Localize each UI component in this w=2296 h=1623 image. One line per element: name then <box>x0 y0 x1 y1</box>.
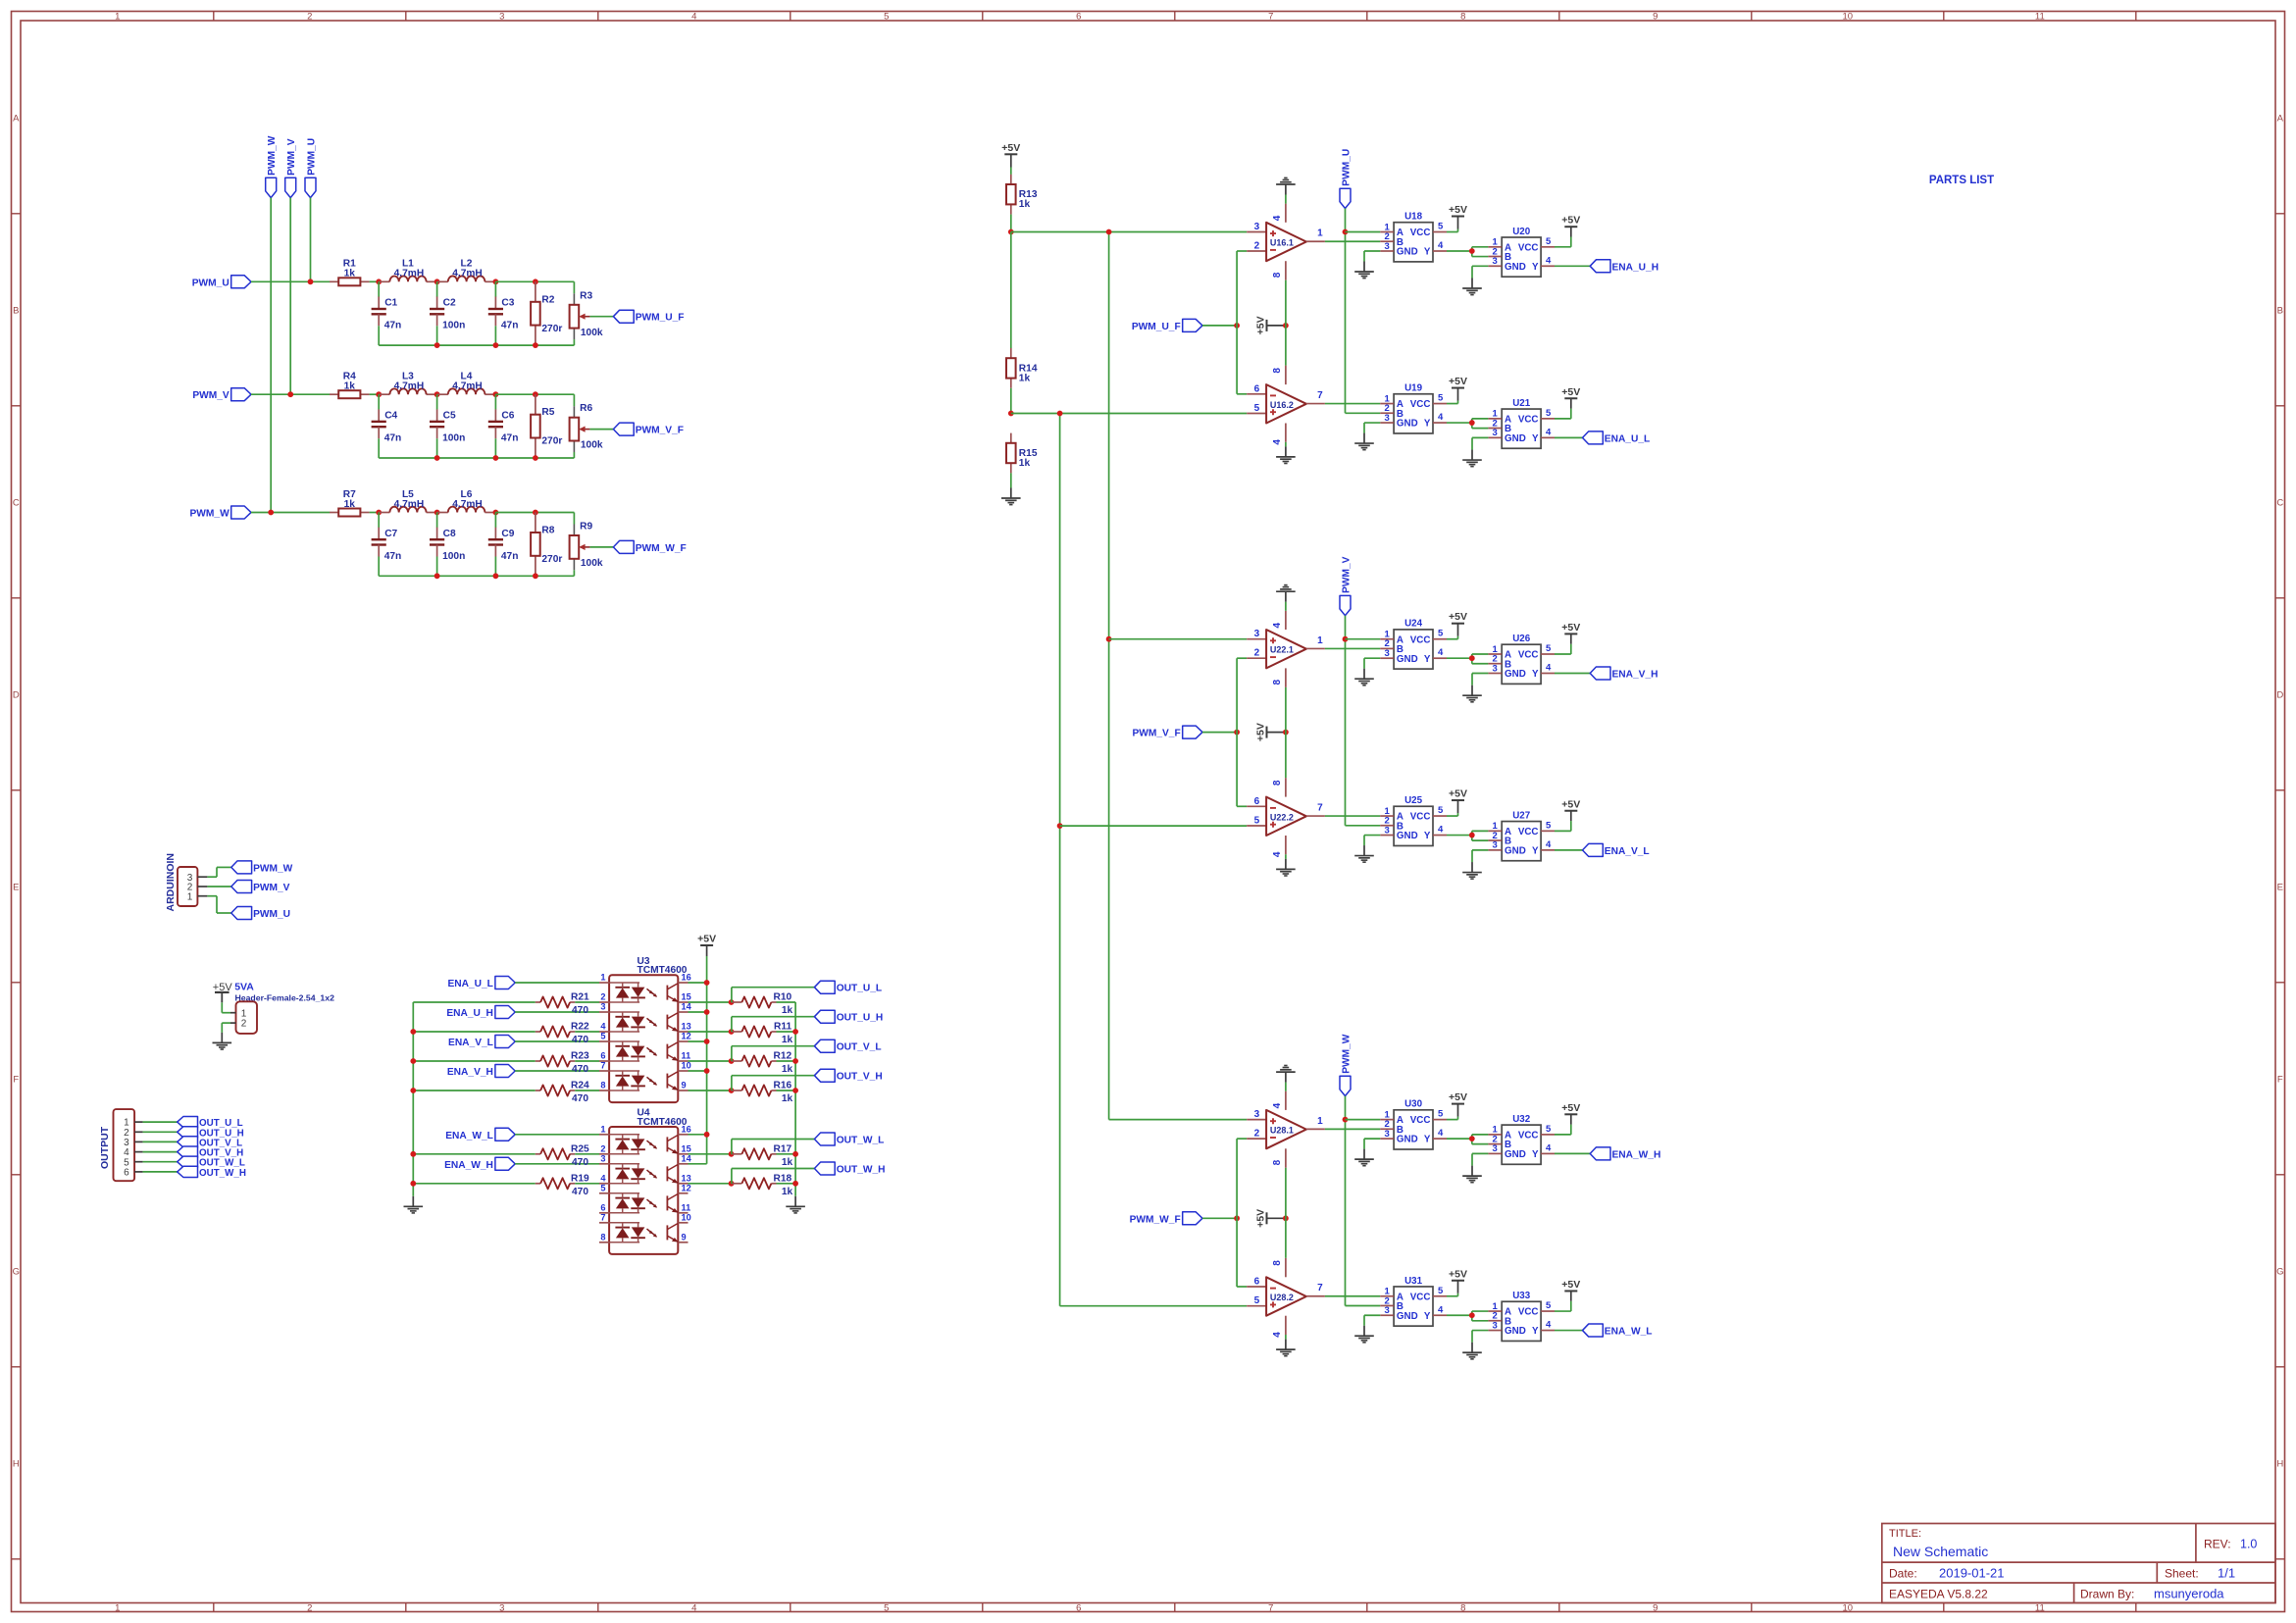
wire U28.1 out to U30 <box>1325 1128 1380 1130</box>
svg-text:8: 8 <box>1272 780 1283 786</box>
svg-text:5: 5 <box>1438 222 1444 232</box>
ground header P1 <box>213 1033 232 1049</box>
port OUT_W_L (connector) <box>178 1156 245 1169</box>
svg-text:R11: R11 <box>774 1022 791 1033</box>
ground U16.2 pin4 <box>1276 446 1296 463</box>
svg-text:ENA_W_L: ENA_W_L <box>1605 1327 1653 1338</box>
svg-text:H: H <box>2276 1458 2283 1469</box>
wire ENA_W_H to opto <box>515 1163 599 1165</box>
svg-text:2: 2 <box>1254 1129 1260 1140</box>
svg-text:9: 9 <box>682 1232 687 1242</box>
wire jog to U21 pin2 <box>1472 423 1489 429</box>
svg-text:6: 6 <box>1076 1603 1081 1614</box>
svg-text:R24: R24 <box>571 1081 589 1091</box>
gate U24 <box>1380 619 1447 669</box>
svg-text:C9: C9 <box>501 529 514 539</box>
svg-text:3: 3 <box>1254 222 1260 232</box>
wire U30 GND <box>1364 1139 1380 1149</box>
wire U18 GND <box>1364 251 1380 262</box>
wire U28.1 pin8 <box>1285 1148 1287 1218</box>
svg-text:1k: 1k <box>782 1157 793 1168</box>
svg-text:R23: R23 <box>571 1051 589 1062</box>
svg-text:R17: R17 <box>773 1143 791 1154</box>
node +5V rail tap <box>704 1132 710 1138</box>
wire jog to U21 pin1 <box>1472 419 1489 423</box>
svg-text:5: 5 <box>600 1032 605 1041</box>
svg-text:2: 2 <box>1254 241 1260 252</box>
wire U22.1 pin2 stub <box>1247 657 1266 659</box>
svg-text:5: 5 <box>1438 1286 1444 1296</box>
svg-text:G: G <box>13 1266 20 1277</box>
power +5V R13 top <box>1001 142 1020 168</box>
svg-text:+5V: +5V <box>1254 723 1266 741</box>
wire collector to +5V <box>689 1040 707 1042</box>
svg-text:R18: R18 <box>773 1173 791 1184</box>
wire PWM_U to U18 <box>1346 231 1381 233</box>
svg-text:VCC: VCC <box>1410 399 1431 410</box>
wire OUT_W_L wire <box>732 1140 815 1154</box>
svg-text:1: 1 <box>1317 228 1323 239</box>
wire U19 Y to U21 <box>1447 422 1472 424</box>
node emitter node R11 <box>729 1029 735 1035</box>
ground U21 <box>1462 450 1482 467</box>
node V rail R2 <box>533 455 538 461</box>
svg-text:PWM_U_F: PWM_U_F <box>1132 322 1181 332</box>
node rail R22 <box>410 1029 416 1035</box>
pin labels U22.2 <box>1254 780 1324 857</box>
svg-text:PWM_U: PWM_U <box>253 909 290 920</box>
svg-text:6: 6 <box>1076 12 1081 23</box>
resistor R16 <box>741 1081 792 1105</box>
gate U25 <box>1380 795 1447 845</box>
wire V bottom rail <box>379 452 574 458</box>
svg-text:7: 7 <box>600 1212 605 1222</box>
wire PWM_V to U24 <box>1346 638 1381 640</box>
svg-text:Y: Y <box>1532 262 1539 273</box>
wire U25 GND <box>1364 836 1380 846</box>
wire U16.2 pin5 stub <box>1247 413 1266 415</box>
svg-text:5: 5 <box>1438 1109 1444 1120</box>
inductor L4 <box>437 372 496 395</box>
svg-text:U28.1: U28.1 <box>1270 1126 1294 1136</box>
port ENA_U_L <box>1583 431 1651 445</box>
svg-text:4: 4 <box>1272 622 1283 628</box>
svg-text:2019-01-21: 2019-01-21 <box>1939 1566 2005 1581</box>
capacitor C2 <box>430 281 465 345</box>
svg-text:3: 3 <box>499 12 504 23</box>
svg-text:REV:: REV: <box>2204 1538 2231 1551</box>
wire U22.1 pin1 out stub <box>1306 647 1325 649</box>
node PWM_V tap <box>287 391 293 397</box>
wire U22.2 pin7 out stub <box>1306 815 1325 817</box>
svg-text:6: 6 <box>1254 1277 1260 1288</box>
comparator U28.2 <box>1266 1277 1306 1315</box>
svg-text:4: 4 <box>1438 825 1444 836</box>
svg-text:PWM_U: PWM_U <box>1342 149 1352 186</box>
svg-text:+5V: +5V <box>1561 386 1580 398</box>
ground U18 <box>1354 262 1374 279</box>
svg-text:470: 470 <box>572 1157 588 1168</box>
port OUT_W_H (opto out) <box>814 1162 885 1176</box>
power +5V W comparators <box>1254 1209 1286 1228</box>
svg-text:+5V: +5V <box>1561 798 1580 810</box>
port OUT_V_H (connector) <box>178 1146 243 1159</box>
svg-text:GND: GND <box>1505 845 1526 856</box>
svg-text:1: 1 <box>115 1603 120 1614</box>
node PWM_V to U24 pin1 <box>1343 636 1349 642</box>
svg-text:EASYEDA V5.8.22: EASYEDA V5.8.22 <box>1889 1588 1988 1601</box>
wire U32 Y to ENA_W_H <box>1555 1152 1590 1154</box>
svg-text:+5V: +5V <box>1449 611 1467 623</box>
svg-text:8: 8 <box>1272 1260 1283 1266</box>
port ENA_W_L <box>1583 1324 1653 1338</box>
node V R2 top tap <box>533 391 538 397</box>
svg-text:13: 13 <box>682 1173 691 1183</box>
wire U33 GND <box>1472 1331 1488 1343</box>
wire PWM_W_F to node <box>1202 1217 1237 1219</box>
port PWM_V_F (filter out) <box>613 423 684 436</box>
inductor L6 <box>437 489 496 513</box>
wire U18 VCC <box>1447 229 1458 232</box>
svg-text:H: H <box>13 1458 20 1469</box>
svg-text:1/1: 1/1 <box>2218 1566 2235 1581</box>
svg-text:U16.1: U16.1 <box>1270 238 1294 248</box>
wire U22.2 pin5 stub <box>1247 825 1266 827</box>
svg-text:9: 9 <box>682 1081 687 1090</box>
power +5V opto rail <box>697 934 716 957</box>
wire U16.2 pin8 <box>1285 326 1287 384</box>
node W R2 top tap <box>533 510 538 516</box>
wire V top rail <box>495 394 574 406</box>
port PWM_W_F (filter out) <box>613 540 686 554</box>
wire ARDUINOIN pin3 to PWM_W <box>207 867 230 877</box>
svg-text:7: 7 <box>600 1061 605 1071</box>
svg-text:4: 4 <box>1546 1320 1552 1331</box>
resistor R23 <box>540 1051 589 1076</box>
svg-text:GND: GND <box>1505 262 1526 273</box>
svg-text:R9: R9 <box>580 522 592 533</box>
power +5V U30 <box>1449 1091 1467 1117</box>
svg-text:VCC: VCC <box>1518 1131 1539 1141</box>
wire R23 stubs <box>536 1060 599 1062</box>
node emitter node R17 <box>729 1151 735 1157</box>
wire ENA_U_L to opto <box>515 982 599 984</box>
wire PWM_U vertical (comp) <box>1346 209 1381 414</box>
svg-text:5: 5 <box>1546 236 1552 247</box>
node U R2 top tap <box>533 279 538 284</box>
wire header pin2 to gnd <box>222 1023 230 1033</box>
resistor R21 <box>540 992 589 1017</box>
port ENA_U_L (opto input) <box>447 977 515 990</box>
svg-text:1k: 1k <box>782 1093 793 1104</box>
svg-text:R12: R12 <box>773 1051 791 1062</box>
svg-text:4: 4 <box>691 12 696 23</box>
wire PWM_W to U30 <box>1346 1119 1381 1121</box>
wire U22.2 pin8 <box>1285 733 1287 797</box>
svg-text:GND: GND <box>1397 1311 1418 1322</box>
svg-text:4: 4 <box>600 1173 606 1183</box>
svg-text:470: 470 <box>572 1187 588 1197</box>
svg-text:6: 6 <box>124 1168 129 1179</box>
wire PWM_U_F to node <box>1202 325 1237 327</box>
svg-text:7: 7 <box>1268 1603 1273 1614</box>
resistor R24 <box>540 1081 589 1105</box>
svg-text:U19: U19 <box>1404 383 1423 394</box>
svg-text:16: 16 <box>682 1124 691 1134</box>
svg-text:PWM_W: PWM_W <box>267 135 278 176</box>
svg-text:B: B <box>2277 305 2283 316</box>
svg-text:VCC: VCC <box>1518 1307 1539 1318</box>
svg-text:ENA_W_H: ENA_W_H <box>1612 1149 1661 1160</box>
wire U22.1 out to U24 <box>1325 647 1380 649</box>
svg-text:3: 3 <box>1493 256 1498 267</box>
svg-text:ENA_V_H: ENA_V_H <box>1612 670 1658 681</box>
svg-text:3: 3 <box>600 1153 605 1163</box>
node 1k rail R18 <box>792 1181 798 1187</box>
svg-text:PWM_W: PWM_W <box>190 509 230 520</box>
svg-text:C3: C3 <box>501 298 514 309</box>
wire R13 to node <box>1010 215 1012 232</box>
wire R22 stubs <box>536 1031 599 1033</box>
node +5V rail tap <box>704 1068 710 1074</box>
wire U21 Y to ENA_U_L <box>1555 436 1583 438</box>
svg-text:7: 7 <box>1317 803 1323 814</box>
power +5V U19 <box>1449 376 1467 401</box>
wire rail to R23 <box>413 1060 536 1062</box>
capacitor C1 <box>372 281 402 345</box>
svg-text:2: 2 <box>307 1603 312 1614</box>
svg-text:ENA_U_L: ENA_U_L <box>1605 433 1650 444</box>
wire R24 stubs <box>536 1090 599 1091</box>
wire jog to U26 pin2 <box>1472 658 1489 664</box>
svg-text:1k: 1k <box>782 1187 793 1197</box>
port PWM_W (filter input) <box>190 506 251 520</box>
svg-text:VCC: VCC <box>1518 242 1539 253</box>
port PWM_U_F (filter out) <box>613 310 684 324</box>
svg-text:ENA_U_L: ENA_U_L <box>447 979 492 989</box>
svg-text:U32: U32 <box>1512 1114 1531 1125</box>
svg-text:1: 1 <box>600 973 605 983</box>
svg-text:+5V: +5V <box>1561 622 1580 634</box>
svg-text:10: 10 <box>682 1212 691 1222</box>
node U30 Y node <box>1469 1136 1475 1141</box>
power +5V U31 <box>1449 1268 1467 1293</box>
node emitter node R12 <box>729 1058 735 1064</box>
svg-text:+5V: +5V <box>1561 1102 1580 1114</box>
wire +5V to R13 <box>1010 168 1012 175</box>
wire PWM_U_F vertical <box>1237 251 1247 394</box>
svg-text:8: 8 <box>1272 368 1283 374</box>
ground U30 <box>1354 1149 1374 1166</box>
power +5V U25 <box>1449 788 1467 814</box>
svg-text:4.7mH: 4.7mH <box>394 381 425 392</box>
power +5V U27 <box>1561 798 1580 821</box>
resistor R15 <box>1006 433 1038 474</box>
ground U32 <box>1462 1166 1482 1183</box>
svg-text:D: D <box>13 689 20 700</box>
svg-text:9: 9 <box>1653 1603 1658 1614</box>
wire PWM_W vertical <box>270 198 272 513</box>
svg-text:1k: 1k <box>344 499 356 510</box>
wire U28.2 pin7 out stub <box>1306 1295 1325 1297</box>
wire rail to R22 <box>413 1031 536 1033</box>
svg-text:VCC: VCC <box>1518 827 1539 837</box>
svg-text:PWM_V: PWM_V <box>192 390 230 401</box>
wire PWM_W to R7 <box>251 512 330 514</box>
svg-text:14: 14 <box>682 1153 692 1163</box>
wire W comparator pin5 row <box>1060 1305 1248 1307</box>
pin labels U28.1 <box>1254 1102 1324 1165</box>
svg-text:3: 3 <box>1384 648 1389 659</box>
svg-text:OUTPUT: OUTPUT <box>99 1126 111 1169</box>
power +5V U33 <box>1561 1279 1580 1301</box>
node emitter node R10 <box>729 999 735 1005</box>
svg-text:4: 4 <box>1438 1304 1444 1315</box>
svg-text:1k: 1k <box>344 269 356 279</box>
svg-text:470: 470 <box>572 1035 588 1045</box>
svg-text:100k: 100k <box>581 440 603 451</box>
port PWM_U_F (comp input) <box>1132 319 1202 332</box>
svg-text:C8: C8 <box>443 529 456 539</box>
svg-text:1: 1 <box>241 1008 247 1019</box>
wire U16.1 pin4 <box>1285 195 1287 223</box>
wire R18 stubs <box>732 1183 796 1185</box>
resistor R8 <box>531 513 562 577</box>
svg-text:5: 5 <box>1546 643 1552 654</box>
svg-text:1k: 1k <box>782 1005 793 1016</box>
svg-text:1k: 1k <box>1019 373 1031 383</box>
power +5V U21 <box>1561 386 1580 409</box>
wire R21 stubs <box>536 1001 599 1003</box>
wire jog to U32 pin1 <box>1472 1135 1489 1139</box>
gate U21 <box>1488 398 1555 448</box>
svg-text:100k: 100k <box>581 328 603 338</box>
svg-text:New Schematic: New Schematic <box>1893 1544 1988 1559</box>
svg-text:A: A <box>13 113 20 124</box>
svg-text:ENA_V_L: ENA_V_L <box>448 1038 493 1048</box>
svg-text:3: 3 <box>1493 663 1498 674</box>
svg-text:15: 15 <box>682 992 691 1002</box>
svg-text:ENA_W_L: ENA_W_L <box>445 1131 493 1141</box>
wire R15 to gnd <box>1010 473 1012 487</box>
svg-text:1k: 1k <box>782 1064 793 1075</box>
svg-text:470: 470 <box>572 1093 588 1104</box>
svg-text:4: 4 <box>1272 1332 1283 1338</box>
wire PWM_V to R4 <box>251 393 330 395</box>
svg-text:3: 3 <box>1493 840 1498 851</box>
svg-text:Y: Y <box>1532 1326 1539 1337</box>
wire jog to U26 pin1 <box>1472 654 1489 658</box>
wire OUT_W_H wire <box>732 1169 815 1184</box>
svg-text:7: 7 <box>1317 1283 1323 1293</box>
svg-text:11: 11 <box>2035 1603 2045 1614</box>
svg-text:7: 7 <box>1268 12 1273 23</box>
svg-text:+5V: +5V <box>697 934 716 945</box>
svg-text:4.7mH: 4.7mH <box>394 269 425 279</box>
wire U28.1 pin1 out stub <box>1306 1128 1325 1130</box>
svg-text:PARTS LIST: PARTS LIST <box>1929 175 1994 186</box>
ground U33 <box>1462 1343 1482 1359</box>
port ENA_U_H <box>1590 260 1658 274</box>
svg-text:3: 3 <box>1384 825 1389 836</box>
comparator U16.2 <box>1266 384 1306 423</box>
node U node C <box>493 279 499 284</box>
wire U4 pin14 to +5V rail <box>689 1163 707 1165</box>
wire header pin1 to +5V <box>222 1002 230 1012</box>
wire ENA_V_H to opto <box>515 1070 599 1072</box>
node rail2 V tap <box>1057 823 1063 829</box>
svg-text:Y: Y <box>1532 1149 1539 1160</box>
wire U28.2 pin5 stub <box>1247 1305 1266 1307</box>
wire U20 Y to ENA_U_H <box>1555 265 1590 267</box>
node rail R25 <box>410 1151 416 1157</box>
potentiometer R9 <box>570 522 614 571</box>
wire U22.2 out to U25 <box>1325 815 1380 817</box>
svg-text:1k: 1k <box>1019 458 1031 469</box>
wire ENA_V_L to opto <box>515 1040 599 1042</box>
power +5V U32 <box>1561 1102 1580 1125</box>
wire U31 VCC <box>1447 1293 1458 1296</box>
port PWM_V (arduino) <box>231 881 290 894</box>
gate U19 <box>1380 383 1447 433</box>
wire jog to U20 pin1 <box>1472 247 1489 251</box>
svg-text:5: 5 <box>1438 805 1444 816</box>
wire ENA_U_H to opto <box>515 1011 599 1013</box>
svg-text:5VA: 5VA <box>234 982 254 993</box>
svg-text:F: F <box>13 1074 19 1085</box>
port ENA_V_L <box>1583 843 1650 857</box>
svg-text:F: F <box>2277 1074 2283 1085</box>
comparator U28.1 <box>1266 1110 1306 1148</box>
svg-text:3: 3 <box>1493 1320 1498 1331</box>
port PWM_U (top) <box>305 138 318 198</box>
svg-text:Y: Y <box>1424 1311 1431 1322</box>
wire U16.2 pin6 stub <box>1247 393 1266 395</box>
svg-text:OUT_U_L: OUT_U_L <box>837 984 882 994</box>
svg-text:U27: U27 <box>1512 810 1531 821</box>
resistor R12 <box>741 1051 792 1076</box>
wire R10 stubs <box>732 1001 796 1003</box>
port OUT_V_L (connector) <box>178 1137 242 1149</box>
port PWM_W (comp) <box>1340 1034 1352 1095</box>
wire U16.1 pin2 stub <box>1247 250 1266 252</box>
wire OUT_V_H wire <box>732 1076 815 1090</box>
svg-text:3: 3 <box>1384 1129 1389 1140</box>
svg-text:11: 11 <box>682 1051 691 1061</box>
svg-text:4.7mH: 4.7mH <box>394 499 425 510</box>
svg-text:470: 470 <box>572 1005 588 1016</box>
svg-text:PWM_W: PWM_W <box>1342 1034 1352 1074</box>
svg-text:4: 4 <box>1438 647 1444 658</box>
gate U20 <box>1488 227 1555 277</box>
node U node A <box>376 279 382 284</box>
svg-text:1: 1 <box>600 1124 605 1134</box>
svg-text:3: 3 <box>1254 629 1260 639</box>
wire U27 Y to ENA_V_L <box>1555 849 1583 851</box>
comparator U22.1 <box>1266 630 1306 668</box>
wire PWM_W_F vertical <box>1237 1139 1247 1287</box>
wire OUTPUT to OUT_U_L <box>143 1121 178 1123</box>
svg-text:2: 2 <box>241 1019 247 1030</box>
inductor L5 <box>379 489 436 513</box>
wire V comparator pin3 row <box>1109 638 1248 640</box>
svg-text:U25: U25 <box>1404 795 1423 806</box>
ground U31 <box>1354 1326 1374 1343</box>
capacitor C3 <box>488 281 519 345</box>
svg-text:8: 8 <box>1272 272 1283 278</box>
resistor R25 <box>540 1143 589 1168</box>
svg-text:R21: R21 <box>571 992 589 1003</box>
